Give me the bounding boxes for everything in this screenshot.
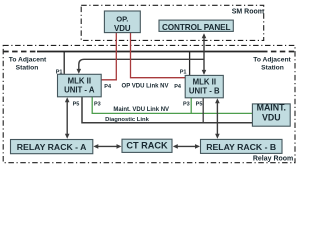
svg-text:P1: P1 [180, 69, 187, 75]
wire: station bus solid [37, 51, 262, 53]
svg-text:P4: P4 [174, 84, 182, 90]
svg-text:To Adjacent: To Adjacent [9, 56, 47, 63]
block CT RACK [122, 139, 172, 152]
block OP VDU [104, 11, 140, 33]
wire: control panel link vertical (to unit B) [203, 35, 205, 74]
svg-text:MLK II: MLK II [193, 78, 216, 87]
wire: station bus dashed left stub [3, 51, 37, 53]
block RELAY RACK-B [201, 139, 283, 153]
block MLK II UNIT-B [185, 75, 223, 97]
wire: unit B to relay rack B (double arrow) [216, 100, 218, 137]
wire: Maint. VDU link (green) [92, 97, 252, 114]
wire: green branch up to unit B P3 [190, 98, 192, 114]
svg-text:VDU: VDU [114, 24, 131, 33]
svg-text:OP VDU Link NV: OP VDU Link NV [122, 84, 169, 90]
svg-text:Station: Station [261, 64, 284, 71]
wire: CT rack to relay rack B (double arrow) [175, 145, 199, 147]
svg-text:CONTROL PANEL: CONTROL PANEL [162, 23, 231, 32]
svg-text:OP.: OP. [116, 15, 128, 24]
wire: P1 drop from bus to MLK II UNIT-B [189, 52, 191, 76]
svg-text:VDU: VDU [262, 113, 281, 123]
wire: OP VDU link to unit B (red) [131, 33, 186, 78]
wire: station bus dashed right stub [262, 51, 295, 53]
svg-text:Diagnostic Link: Diagnostic Link [105, 117, 150, 123]
svg-text:SM Room: SM Room [232, 8, 264, 15]
svg-text:UNIT - B: UNIT - B [189, 87, 220, 96]
svg-text:Maint. VDU Link NV: Maint. VDU Link NV [113, 107, 169, 113]
svg-text:Relay Room: Relay Room [253, 156, 293, 163]
svg-text:P4: P4 [104, 84, 112, 90]
svg-text:UNIT - A: UNIT - A [64, 86, 95, 95]
svg-text:MAINT.: MAINT. [257, 103, 286, 113]
wire: OP VDU link to unit A (red) [102, 33, 117, 80]
svg-text:P3: P3 [94, 102, 101, 108]
svg-text:RELAY RACK - B: RELAY RACK - B [206, 142, 276, 152]
wire: unit A to relay rack A (double arrow) [66, 99, 68, 137]
svg-text:CT RACK: CT RACK [126, 141, 168, 151]
svg-text:Station: Station [16, 64, 39, 71]
wire: control panel link branch to unit A [79, 59, 204, 70]
svg-text:MLK II: MLK II [68, 77, 91, 86]
wire: P1 drop from bus to MLK II UNIT-A [63, 52, 65, 75]
wire: diagnostic branch up to unit B P5 [202, 98, 204, 123]
block RELAY RACK-A [11, 140, 93, 154]
block CONTROL PANEL [159, 20, 233, 31]
SM Room boundary [81, 5, 264, 40]
Station boundary [3, 45, 295, 162]
svg-text:To Adjacent: To Adjacent [253, 56, 291, 63]
svg-text:RELAY RACK - A: RELAY RACK - A [17, 142, 87, 152]
wire: relay rack A to CT rack (double arrow) [95, 145, 120, 147]
block MAINT. VDU [252, 104, 290, 126]
svg-text:P5: P5 [196, 102, 203, 108]
svg-text:P3: P3 [183, 102, 190, 108]
block MLK II UNIT-A [58, 74, 102, 97]
wire: Diagnostic link (dark) [82, 97, 252, 123]
svg-text:P5: P5 [73, 102, 80, 108]
